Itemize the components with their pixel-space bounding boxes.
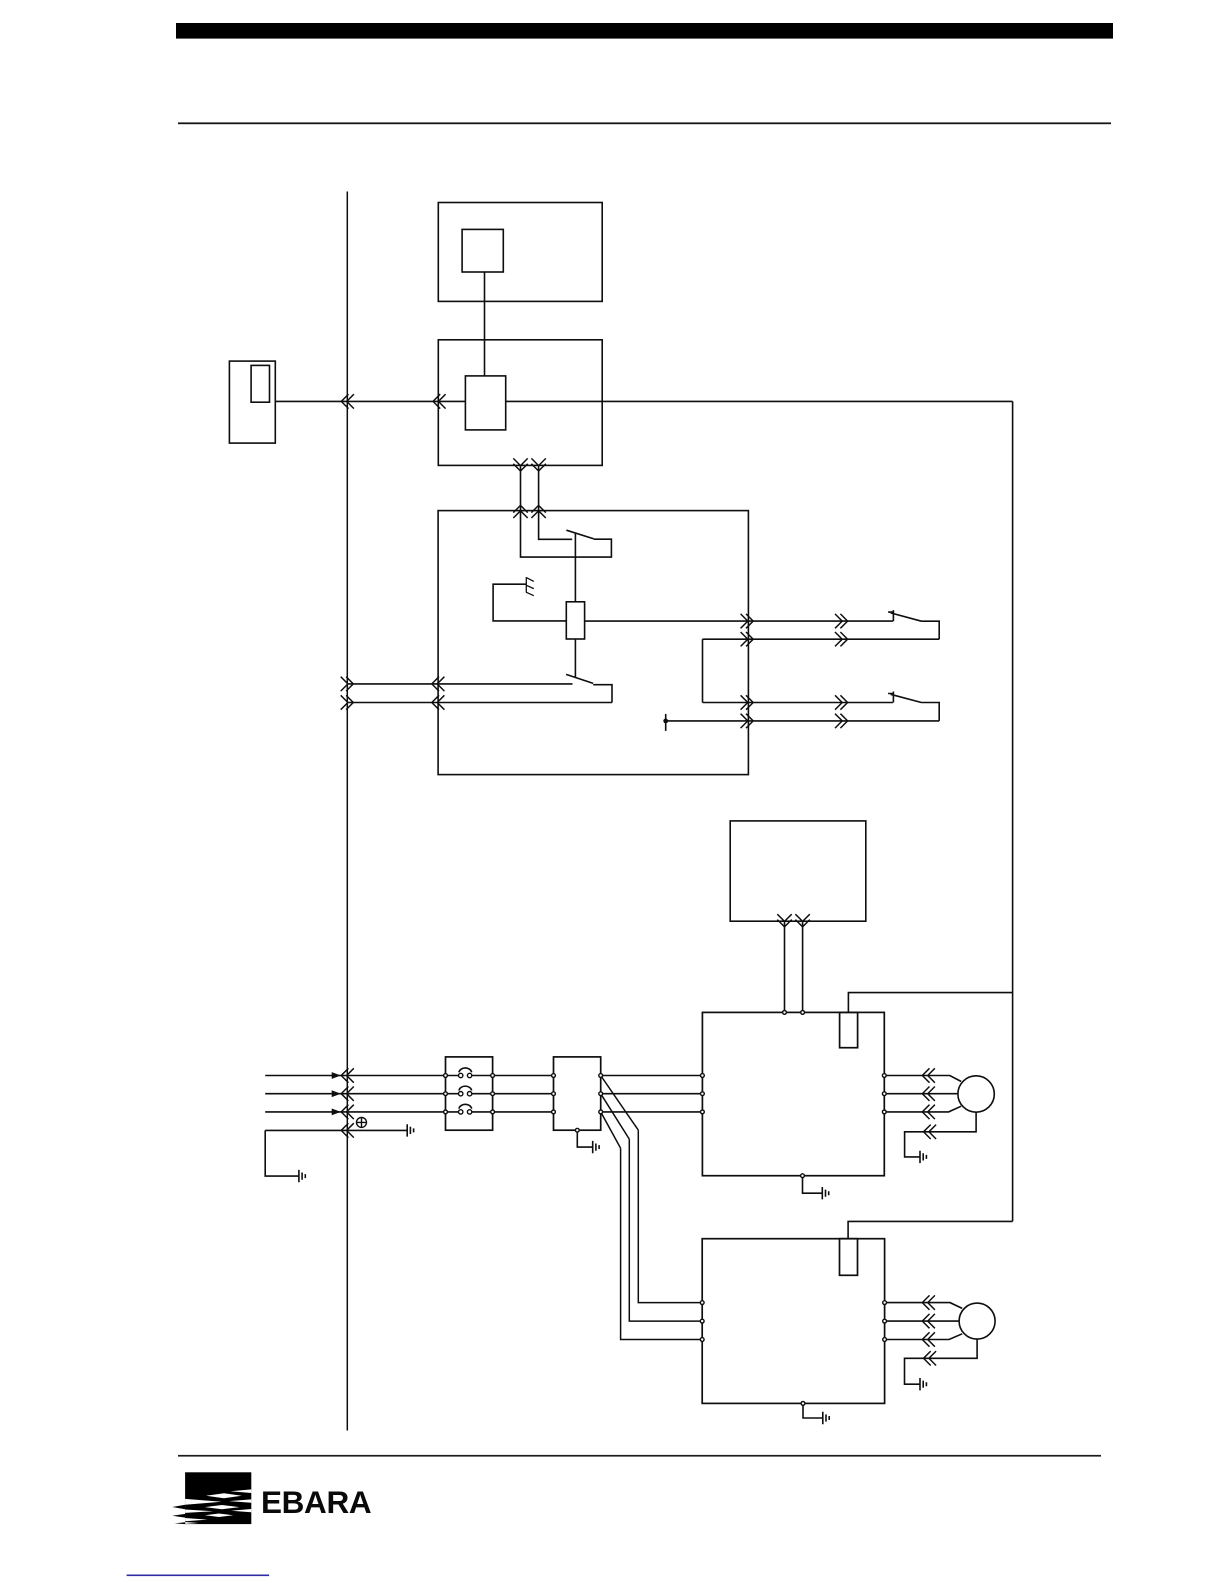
terminal: contactor L1 out <box>599 1074 603 1078</box>
contact: breaker L1 left <box>459 1073 463 1077</box>
terminal: breaker L2 out <box>491 1092 495 1096</box>
relay top contact loop wire <box>521 511 612 557</box>
connector: motor 2 earth lead <box>924 1351 937 1365</box>
ground: inverter 1 <box>822 1187 828 1199</box>
footer rule <box>178 1455 1101 1457</box>
terminal: inverter 2 W <box>883 1338 887 1342</box>
switch blade: relay lower contact <box>566 674 593 683</box>
contact: breaker L3 right <box>467 1110 471 1114</box>
wire: phase L2 contactor to inverter 1 <box>603 1093 703 1095</box>
terminal: contactor L3 out <box>599 1110 603 1114</box>
ground: PE bottom left <box>299 1170 305 1182</box>
connector: panel wire at control unit <box>433 394 446 408</box>
ground: motor 1 <box>920 1151 926 1163</box>
terminal: inverter 2 earth <box>801 1402 805 1406</box>
connector: limit switch 1 return <box>835 632 848 646</box>
connector: control box bottom left <box>513 458 527 471</box>
connector: relay box edge wire 1 <box>432 677 445 691</box>
connector: bus side of relay wire 1 <box>341 677 354 691</box>
wire: phase L3 breaker to contactor <box>472 1111 554 1113</box>
terminal: inverter 1 W <box>882 1110 886 1114</box>
wire: phase L1 contactor to inverter 1 <box>603 1075 703 1077</box>
terminal block: inverter 1 feedback <box>840 1012 858 1047</box>
connector: control box bottom right <box>531 458 545 471</box>
arrowhead: phase L2 at bus <box>332 1090 341 1097</box>
limit switch S1 <box>888 610 939 639</box>
wire: junction stub <box>665 714 667 731</box>
box: inverter 1 <box>702 1012 884 1175</box>
wire: controller to inverter 1 (left) <box>784 921 786 1012</box>
connector: relay box edge wire 2 <box>432 695 445 709</box>
terminal: breaker L3 out <box>491 1110 495 1114</box>
wire: phase L3 branch diagonal to inverter 2 <box>601 1112 621 1148</box>
wire: inverter 1 earth <box>803 1176 823 1194</box>
wire: control to relay box (left) <box>520 465 522 510</box>
chassis ground symbol (relay coil) <box>526 577 534 596</box>
connector: phase L3 at bus <box>341 1105 354 1119</box>
wire: inverter 1 output U <box>884 1076 961 1082</box>
connector: PE at bus <box>341 1123 354 1137</box>
terminal: inverter 1 ctrl A <box>783 1011 787 1015</box>
connector: limit switch 1 feed <box>835 614 848 628</box>
wire: inverter 2 output U <box>885 1303 963 1309</box>
terminal: inverter 2 S <box>700 1319 704 1323</box>
wire: phase L1 input <box>265 1075 458 1077</box>
box: contactor / filter <box>554 1057 601 1130</box>
wire: jumper to limit switch 1 return <box>703 638 940 640</box>
terminal: inverter 1 V <box>882 1092 886 1096</box>
wire: feedback branch to inverter 2 terminal <box>848 1221 1013 1238</box>
connector: limit switch 2 feed <box>835 695 848 709</box>
top title bar <box>176 23 1113 39</box>
connector: motor 2 lead U <box>922 1295 935 1309</box>
connector: relay box top right <box>531 505 545 518</box>
header rule <box>178 122 1111 124</box>
wire: phase L2 branch vertical <box>629 1139 702 1321</box>
wire: inverter 1 output V <box>884 1093 958 1095</box>
terminal: inverter 2 R <box>700 1301 704 1305</box>
ground: inverter 2 <box>823 1412 829 1424</box>
wire: PE line <box>265 1129 407 1131</box>
connector: limit switch 2 return <box>835 714 848 728</box>
box: operator panel display <box>251 365 269 402</box>
connector: motor 1 lead U <box>922 1068 935 1082</box>
wire: inverter 2 output V <box>885 1320 959 1322</box>
breaker arc: phase L3 <box>459 1104 472 1108</box>
contact: breaker L3 left <box>459 1110 463 1114</box>
limit switch S2 <box>888 692 939 721</box>
box: circuit breaker MCCB <box>446 1057 493 1130</box>
wire: feedback branch to inverter 1 terminal <box>848 993 1012 1013</box>
relay lower contact loop <box>593 685 612 703</box>
motor M1 <box>958 1076 994 1112</box>
terminal: contactor L2 out <box>599 1092 603 1096</box>
relay top contact feed wire <box>539 511 573 540</box>
connector: controller bottom right <box>795 914 809 927</box>
wire: inverter 2 earth <box>803 1403 823 1418</box>
terminal: breaker L1 out <box>491 1074 495 1078</box>
footer blue underline <box>127 1575 270 1577</box>
wire: relay actuator link upper <box>574 533 576 602</box>
terminal: inverter 1 T <box>701 1110 705 1114</box>
contact: breaker L2 left <box>459 1092 463 1096</box>
wire: inverter 2 output W <box>885 1334 963 1340</box>
wire: junction node to limit switch 2 return <box>666 720 940 722</box>
wire: inverter 1 output W <box>884 1106 961 1112</box>
svg-text:EBARA: EBARA <box>261 1484 371 1520</box>
wire: bus to relay lower contact return <box>347 702 612 704</box>
terminal: inverter 1 S <box>701 1092 705 1096</box>
connector: motor 1 lead W <box>922 1105 935 1119</box>
connector: relay box right edge wire 1 <box>741 614 754 628</box>
terminal: breaker L1 in <box>444 1074 448 1078</box>
wire: power supply to controller module <box>484 272 486 376</box>
protective earth symbol (circle-cross) <box>356 1117 367 1127</box>
switch blade: relay top contact <box>566 530 594 539</box>
terminal: breaker L2 in <box>444 1092 448 1096</box>
terminal: contactor earth <box>575 1128 579 1132</box>
arrowhead: phase L3 at bus <box>332 1109 341 1116</box>
wire: control to relay box (right) <box>538 465 540 510</box>
arrowhead: phase L1 at bus <box>332 1072 341 1079</box>
breaker arc: phase L1 <box>459 1068 472 1072</box>
wire: feedback column (right side) <box>1012 401 1014 1221</box>
terminal: inverter 1 ctrl B <box>801 1011 805 1015</box>
ground: motor 2 <box>920 1378 926 1390</box>
EBARA logo mark <box>172 1472 251 1524</box>
terminal: inverter 1 R <box>701 1074 705 1078</box>
terminal: breaker L3 in <box>444 1110 448 1114</box>
terminal: inverter 2 T <box>700 1338 704 1342</box>
connector: phase L1 at bus <box>341 1068 354 1082</box>
box: pump controller <box>730 821 866 921</box>
wire: PE drop to ground <box>265 1130 298 1176</box>
contact: breaker L1 right <box>467 1073 471 1077</box>
connector: motor 2 lead W <box>922 1332 935 1346</box>
breaker arc: phase L2 <box>459 1086 472 1090</box>
box: inverter 2 <box>702 1239 884 1404</box>
terminal: contactor L2 in <box>552 1092 556 1096</box>
connector: relay box right edge wire 3 <box>741 695 754 709</box>
connector: controller bottom left <box>777 914 791 927</box>
connector: motor 2 lead V <box>922 1314 935 1328</box>
connector: relay box right edge wire 4 <box>741 714 754 728</box>
wire: main vertical bus <box>346 192 348 1431</box>
box: inner module of control unit <box>465 376 505 430</box>
wire: bus to relay lower contact <box>347 683 572 685</box>
box: power supply unit (top) <box>438 203 602 302</box>
terminal: contactor L1 in <box>552 1074 556 1078</box>
wire: phase L2 input <box>265 1093 458 1095</box>
connector: bus side of relay wire 2 <box>341 695 354 709</box>
wire: phase L1 branch vertical <box>638 1130 702 1303</box>
connector: relay box top left <box>513 505 527 518</box>
terminal: contactor L3 in <box>552 1110 556 1114</box>
terminal: inverter 1 earth <box>801 1174 805 1178</box>
connector: phase L2 at bus <box>341 1087 354 1101</box>
wire: phase L3 contactor to inverter 1 <box>603 1111 703 1113</box>
wire: phase L2 breaker to contactor <box>472 1093 554 1095</box>
wire: contactor earth <box>577 1130 592 1147</box>
wire: phase L1 breaker to contactor <box>472 1075 554 1077</box>
junction dot <box>663 719 668 724</box>
contact: breaker L2 right <box>467 1092 471 1096</box>
wire: control unit to right feedback column <box>506 400 1013 402</box>
connector: relay box right edge wire 2 <box>741 632 754 646</box>
box: inner module of power supply unit <box>462 229 503 272</box>
connector: motor 1 earth lead <box>924 1125 937 1139</box>
wire: coil output to limit switch 1 <box>585 620 893 622</box>
terminal block: inverter 2 feedback <box>840 1239 858 1276</box>
ground: contactor <box>593 1141 599 1153</box>
wire: phase L2 branch diagonal to inverter 2 <box>601 1094 630 1139</box>
wire: controller to inverter 1 (right) <box>802 921 804 1012</box>
wire: coil to chassis ground <box>493 584 566 621</box>
ground: PE right <box>407 1124 413 1136</box>
wire: motor 2 earth lead <box>905 1339 978 1384</box>
wire: jumper to limit switch 2 <box>703 702 893 704</box>
terminal: inverter 2 U <box>883 1301 887 1305</box>
wire: phase L1 branch diagonal to inverter 2 <box>601 1076 639 1131</box>
box: operator panel (left) <box>229 361 275 443</box>
connector: motor 1 lead V <box>922 1087 935 1101</box>
wire: operator panel to control unit <box>275 400 465 402</box>
box: main control unit <box>438 340 602 466</box>
wire: jumper vertical <box>702 639 704 702</box>
terminal: inverter 2 V <box>883 1319 887 1323</box>
relay coil K1 <box>566 602 584 639</box>
box: relay / contactor compartment <box>438 511 748 775</box>
wire: motor 1 earth lead <box>905 1112 977 1157</box>
wire: phase L3 branch vertical <box>621 1148 703 1339</box>
wire: phase L3 input <box>265 1111 458 1113</box>
connector: panel wire at bus <box>341 394 354 408</box>
wire: relay actuator link lower <box>574 639 576 677</box>
motor M2 <box>959 1303 995 1339</box>
terminal: inverter 1 U <box>882 1074 886 1078</box>
